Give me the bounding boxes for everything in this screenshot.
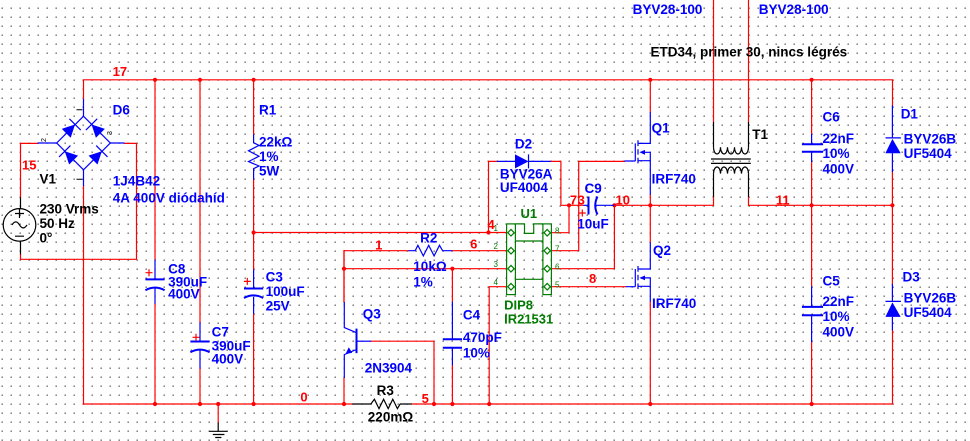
C7 polarity plus	[193, 334, 200, 341]
svg-text:1: 1	[494, 224, 499, 233]
svg-text:8: 8	[555, 226, 560, 235]
Q1 arrow	[639, 150, 645, 155]
MOSFET Q1	[624, 112, 650, 195]
svg-text:Q3: Q3	[363, 307, 382, 322]
svg-text:T1: T1	[752, 127, 768, 142]
svg-text:8: 8	[589, 271, 596, 286]
wire Q1 source stub	[649, 195, 651, 206]
svg-text:Q1: Q1	[652, 121, 671, 136]
wire Q2 source to rail	[649, 302, 651, 404]
svg-text:5: 5	[555, 280, 560, 289]
svg-text:0: 0	[300, 390, 307, 405]
capacitor C4	[443, 302, 462, 366]
Q3 emitter arrow	[346, 347, 353, 354]
wire net 4 row to U1 pin 1	[254, 232, 507, 234]
svg-text:C9: C9	[585, 181, 602, 196]
svg-text:470pF: 470pF	[463, 330, 502, 345]
svg-text:22nF: 22nF	[823, 131, 855, 146]
svg-text:BYV28-100: BYV28-100	[759, 2, 829, 17]
svg-text:5: 5	[422, 391, 429, 406]
junctions net 7 net 10	[567, 203, 653, 207]
svg-text:7: 7	[555, 244, 560, 253]
junctions net 1 and net 6 row	[342, 267, 455, 271]
wire D1 branch	[891, 172, 893, 284]
svg-text:2N3904: 2N3904	[365, 361, 413, 376]
svg-text:U1: U1	[521, 206, 538, 221]
svg-text:15: 15	[22, 158, 36, 173]
diode D2	[497, 154, 551, 168]
wire net 11 row	[749, 197, 893, 205]
svg-text:D6: D6	[113, 103, 131, 118]
wire ground stem red part	[217, 404, 219, 423]
junctions net 17	[153, 78, 814, 82]
capacitor C6	[802, 134, 823, 162]
wire Q1 drain stub	[649, 80, 651, 112]
wire R2 left / net 1	[344, 251, 408, 302]
wire U1 pin 5 to Q2 gate (net 8)	[551, 286, 625, 288]
wire bridge pin 3 to V1 bottom (via right drop)	[21, 143, 137, 259]
svg-text:DIP8: DIP8	[504, 298, 533, 313]
IC U1 DIP8 IR21531	[507, 224, 552, 295]
C3 polarity plus	[244, 278, 251, 285]
bridge pin ticks and numbers	[77, 110, 83, 180]
svg-text:400V: 400V	[212, 352, 244, 367]
svg-text:BYV26B: BYV26B	[904, 291, 957, 306]
svg-text:BYV26B: BYV26B	[904, 132, 957, 147]
Q2 arrow	[639, 276, 645, 281]
transformer T1	[711, 122, 751, 197]
svg-text:V1: V1	[40, 172, 57, 187]
svg-text:4A 400V diódahíd: 4A 400V diódahíd	[113, 191, 225, 206]
junctions bottom rail	[153, 402, 814, 406]
svg-text:R3: R3	[377, 383, 395, 398]
svg-text:22nF: 22nF	[823, 294, 855, 309]
svg-text:C6: C6	[823, 110, 841, 125]
diode D1	[886, 106, 901, 173]
svg-text:400V: 400V	[823, 325, 855, 340]
svg-text:1J4B42: 1J4B42	[113, 174, 160, 189]
wire net 0 bottom rail left	[84, 403, 353, 405]
svg-text:R2: R2	[420, 231, 437, 246]
wire Q3 emitter to rail	[343, 378, 345, 404]
svg-text:C5: C5	[823, 274, 841, 289]
wire C8 branch	[154, 80, 156, 404]
wire net 17 top rail	[84, 80, 893, 106]
svg-text:3: 3	[107, 131, 114, 135]
svg-text:R1: R1	[259, 103, 277, 118]
svg-text:UF5404: UF5404	[904, 305, 953, 320]
capacitor C9	[584, 197, 615, 215]
capacitor C5	[802, 286, 823, 342]
wire V1 top to bridge pin 2	[21, 143, 38, 197]
svg-text:6: 6	[470, 237, 477, 252]
wire D2 cathode to net 7	[551, 161, 584, 205]
capacitor C3	[244, 270, 263, 314]
svg-text:400V: 400V	[168, 287, 200, 302]
bridge rectifier D6	[38, 99, 125, 186]
svg-text:D1: D1	[901, 107, 919, 122]
svg-text:D3: D3	[903, 270, 921, 285]
ground symbol	[209, 423, 227, 438]
svg-text:10: 10	[616, 192, 630, 207]
svg-text:10uF: 10uF	[577, 217, 609, 232]
svg-text:17: 17	[113, 64, 127, 79]
wire C7 branch	[199, 80, 201, 404]
svg-text:50 Hz: 50 Hz	[40, 216, 76, 231]
svg-text:C7: C7	[212, 325, 229, 340]
U1 pin numbers right	[555, 226, 560, 289]
svg-text:5W: 5W	[259, 164, 280, 179]
svg-text:10kΩ: 10kΩ	[413, 259, 447, 274]
svg-text:1%: 1%	[259, 149, 279, 164]
wire net 10 row	[614, 197, 713, 205]
wire R2 right to U1 pin 2 (net 6)	[452, 250, 506, 252]
wire U1 pin 8 riser	[551, 205, 569, 232]
svg-text:D2: D2	[515, 136, 532, 151]
diode D3	[886, 284, 901, 330]
svg-text:3: 3	[494, 260, 499, 269]
wire Q3 collector riser	[343, 251, 345, 302]
resistor R1	[249, 135, 260, 180]
wire C6 branch	[811, 80, 813, 206]
svg-text:1%: 1%	[413, 275, 433, 290]
C9 polarity plus	[579, 210, 586, 217]
svg-text:3: 3	[578, 192, 585, 207]
AC source V1	[3, 197, 36, 254]
C8 polarity plus	[146, 269, 153, 276]
svg-text:C3: C3	[266, 270, 284, 285]
svg-text:6: 6	[555, 262, 560, 271]
wire U1 pin 4 to rail	[489, 287, 506, 404]
svg-text:UF4004: UF4004	[500, 180, 549, 195]
svg-text:100uF: 100uF	[266, 284, 305, 299]
svg-text:0°: 0°	[40, 231, 53, 246]
svg-text:10%: 10%	[823, 309, 850, 324]
svg-text:BYV28-100: BYV28-100	[633, 2, 703, 17]
svg-text:4: 4	[494, 278, 499, 287]
wire C5 branch	[811, 205, 813, 404]
resistor R2	[408, 245, 452, 256]
svg-text:1: 1	[375, 238, 382, 253]
wire D2 anode drop	[489, 161, 498, 232]
transistor Q3	[344, 302, 371, 378]
wire U1 pin 6 riser to net 10	[551, 205, 614, 268]
svg-text:IRF740: IRF740	[652, 296, 696, 311]
capacitor C7	[190, 322, 209, 368]
wire R1/C3 branch	[253, 80, 255, 404]
svg-text:25V: 25V	[266, 299, 290, 314]
svg-text:7: 7	[570, 192, 577, 207]
wire bridge pin 1 down to node 0 rail	[83, 186, 85, 404]
resistor R3	[352, 399, 411, 408]
wire Q2 drain stub	[649, 205, 651, 242]
MOSFET Q2	[626, 242, 651, 301]
svg-text:220mΩ: 220mΩ	[368, 410, 414, 425]
junctions net 4	[252, 230, 491, 234]
svg-text:Q2: Q2	[653, 243, 671, 258]
svg-text:2: 2	[494, 242, 499, 251]
svg-text:230 Vrms: 230 Vrms	[40, 202, 99, 217]
svg-text:10%: 10%	[823, 146, 850, 161]
svg-text:IR21531: IR21531	[504, 312, 553, 327]
svg-text:11: 11	[776, 192, 790, 207]
svg-text:C4: C4	[463, 308, 481, 323]
wire Q3 base to net 5	[371, 341, 434, 404]
U1 pin numbers left	[494, 224, 499, 287]
wire net 5 bottom rail right	[412, 330, 893, 404]
svg-text:400V: 400V	[823, 162, 855, 177]
svg-text:ETD34, primer 30, nincs légrés: ETD34, primer 30, nincs légrés	[651, 45, 848, 60]
junctions net 11	[810, 203, 895, 207]
wire U1 pin 3 row	[344, 268, 507, 270]
wire C4 riser	[451, 269, 453, 404]
svg-text:2: 2	[41, 138, 48, 142]
wire U1 pin 7 to Q1 gate (net 3)	[551, 161, 624, 250]
svg-text:22kΩ: 22kΩ	[259, 135, 293, 150]
svg-text:UF5404: UF5404	[904, 146, 953, 161]
svg-text:10%: 10%	[463, 346, 490, 361]
svg-text:IRF740: IRF740	[652, 172, 696, 187]
capacitor C8	[145, 260, 164, 304]
wire transformer top leads to BYV28-100	[714, 0, 749, 122]
